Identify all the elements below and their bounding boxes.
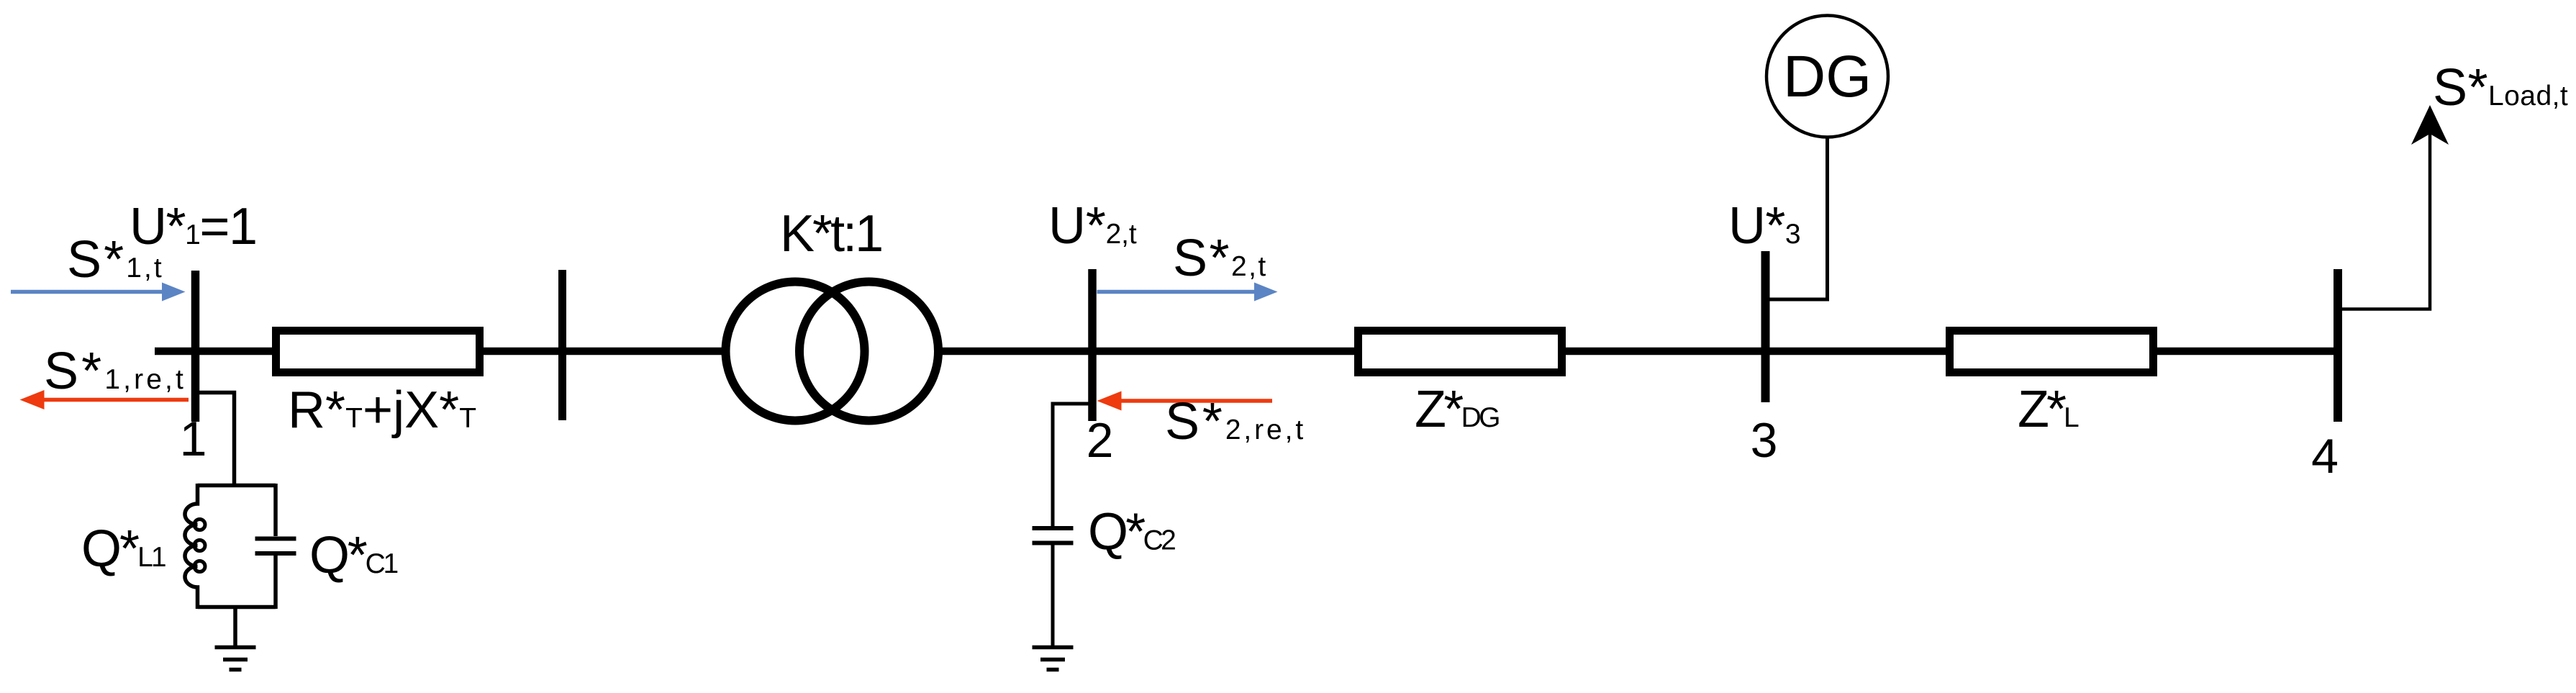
generator DG circle bbox=[1767, 16, 1888, 137]
resistor Z*L box bbox=[1950, 331, 2154, 373]
LC tank rectangle bottom bbox=[198, 605, 276, 610]
bus 3 bbox=[1761, 251, 1770, 402]
capacitor C2 bottom plate bbox=[1033, 541, 1074, 545]
wire load lead at bus 4 bbox=[2342, 134, 2430, 309]
arrow S*2,re,t red bbox=[1097, 391, 1273, 411]
capacitor C1 bottom plate bbox=[255, 551, 296, 556]
capacitor C1 top lead bbox=[273, 484, 278, 536]
transformer K*t:1 secondary circle bbox=[799, 282, 938, 421]
capacitor C1 top plate bbox=[255, 537, 296, 541]
capacitor C1 bottom lead bbox=[273, 556, 278, 609]
svg-text:4: 4 bbox=[2311, 429, 2339, 484]
resistor R*T+jX*T box bbox=[276, 331, 480, 373]
wire bus1 shunt branch bbox=[196, 393, 235, 484]
bus A (unlabeled) bbox=[558, 270, 566, 420]
bus 1 bbox=[191, 271, 200, 422]
capacitor C2 top plate bbox=[1033, 526, 1074, 530]
wire DG lead to bus 3 bbox=[1770, 137, 1828, 299]
arrow S*1,re,t red bbox=[20, 390, 189, 409]
svg-text:K*t:1: K*t:1 bbox=[780, 205, 881, 263]
bus 2 bbox=[1088, 269, 1097, 421]
arrow S*2,t blue bbox=[1097, 283, 1278, 302]
arrowhead S*Load,t bbox=[2411, 105, 2449, 145]
svg-text:DG: DG bbox=[1783, 44, 1872, 109]
wire bus2 shunt branch bbox=[1053, 404, 1089, 526]
bus 4 bbox=[2334, 269, 2342, 422]
svg-text:2: 2 bbox=[1087, 413, 1114, 468]
wire main feeder right segment bbox=[941, 348, 2338, 355]
LC tank rectangle top bbox=[198, 484, 276, 488]
wire LC tank to ground bbox=[233, 607, 237, 646]
capacitor C2 bottom lead bbox=[1051, 545, 1055, 646]
svg-text:1: 1 bbox=[180, 412, 207, 466]
inductor loop 3 bbox=[194, 561, 205, 572]
ground at bus 1 branch bbox=[215, 648, 256, 670]
ground at bus 2 branch bbox=[1033, 648, 1074, 670]
wire main feeder left segment bbox=[155, 348, 725, 355]
inductor loop 1 bbox=[194, 520, 205, 530]
transformer K*t:1 primary circle bbox=[726, 282, 865, 421]
inductor Q*L1 coil bbox=[185, 484, 198, 609]
resistor Z*DG box bbox=[1359, 331, 1562, 373]
svg-text:3: 3 bbox=[1751, 413, 1778, 468]
arrow S*1,t blue bbox=[11, 283, 186, 302]
svg-text:R*T+jX*T: R*T+jX*T bbox=[288, 381, 476, 439]
inductor loop 2 bbox=[194, 540, 205, 551]
